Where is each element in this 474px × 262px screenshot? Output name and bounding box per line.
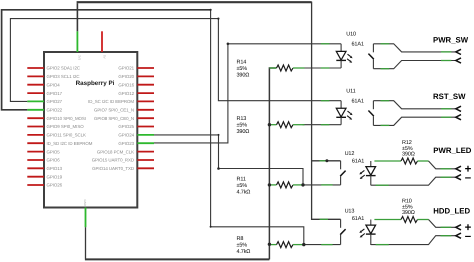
svg-text:HDD_LED: HDD_LED bbox=[433, 207, 470, 216]
svg-text:R13: R13 bbox=[237, 116, 247, 122]
svg-text:GPIO4: GPIO4 bbox=[47, 82, 61, 87]
Pi pin GPIO20 bbox=[118, 74, 154, 79]
junction GPIO23 corner bbox=[227, 43, 230, 46]
Pi pin ID_SD I2C ID EEPROM bbox=[27, 141, 92, 146]
Pi pin GPIO11 SPI0_SCLK bbox=[27, 133, 86, 138]
wire 3V3 bus to U12/U13 switches bbox=[77, 2, 341, 220]
svg-text:ID_SD I2C ID EEPROM: ID_SD I2C ID EEPROM bbox=[47, 141, 93, 146]
Pi pin GPIO2 SDA1 I2C bbox=[27, 66, 80, 71]
svg-text:±5%: ±5% bbox=[237, 123, 248, 129]
svg-text:Raspberry Pi: Raspberry Pi bbox=[76, 80, 115, 87]
svg-text:±5%: ±5% bbox=[237, 243, 248, 249]
Pi pin GPIO13 bbox=[27, 166, 62, 171]
Pi pin GPIO4 bbox=[27, 82, 60, 87]
junction U12 switch feed bbox=[325, 159, 328, 162]
Pi pin GPIO25 bbox=[118, 124, 154, 129]
svg-text:U11: U11 bbox=[346, 88, 355, 94]
svg-text:GPIO18 PCM_CLK: GPIO18 PCM_CLK bbox=[97, 149, 134, 154]
Pi pin GPIO22 bbox=[27, 108, 62, 113]
resistor R12 390Ω bbox=[374, 140, 428, 164]
svg-text:GPIO14 UART0_TXD: GPIO14 UART0_TXD bbox=[92, 166, 134, 171]
svg-text:GPIO8 SPI0_CE0_N: GPIO8 SPI0_CE0_N bbox=[94, 116, 134, 121]
svg-text:GPIO21: GPIO21 bbox=[118, 66, 134, 71]
junction R8 right bbox=[302, 243, 305, 246]
bend GPIO22 wire bbox=[210, 9, 212, 11]
wire R14 to U10 LED cathode bbox=[303, 67, 342, 69]
Raspberry Pi module body bbox=[44, 52, 137, 208]
resistor R11 4.7kΩ bbox=[237, 176, 305, 195]
svg-text:R11: R11 bbox=[237, 176, 246, 182]
Pi pin GPIO12 bbox=[118, 91, 154, 96]
Pi pin GPIO18 PCM_CLK bbox=[97, 149, 154, 154]
Pi pin GPIO10 SPI0_MOSI bbox=[27, 116, 86, 121]
wire GND bus to resistor column bbox=[85, 68, 277, 259]
svg-text:GPIO16: GPIO16 bbox=[118, 82, 134, 87]
junction R11 right bbox=[301, 183, 304, 186]
optocoupler U10 61A1 (LED side) bbox=[321, 32, 364, 69]
svg-text:GPIO17: GPIO17 bbox=[47, 91, 63, 96]
junction R8 left bbox=[268, 243, 271, 246]
svg-text:GPIO7 SPI0_CE1_N: GPIO7 SPI0_CE1_N bbox=[94, 108, 134, 113]
Pi pin GPIO14 UART0_TXD bbox=[92, 166, 154, 171]
bend GPIO24 corner bbox=[218, 134, 220, 136]
svg-text:GPIO9 SPI0_MISO: GPIO9 SPI0_MISO bbox=[47, 124, 85, 129]
optocoupler U12 61A1 (switch side) bbox=[320, 151, 365, 185]
optocoupler U10 61A1 (switch side) bbox=[368, 44, 373, 69]
svg-text:PWR_SW: PWR_SW bbox=[433, 35, 469, 44]
svg-text:GPIO13: GPIO13 bbox=[47, 166, 63, 171]
svg-text:R14: R14 bbox=[237, 60, 247, 66]
svg-text:61A1: 61A1 bbox=[352, 42, 364, 48]
svg-text:±5%: ±5% bbox=[237, 183, 248, 189]
junction R13 left bbox=[268, 123, 271, 126]
svg-text:390Ω: 390Ω bbox=[237, 73, 250, 79]
svg-text:GPIO23: GPIO23 bbox=[118, 141, 134, 146]
svg-text:GPIO15 UART0_RXD: GPIO15 UART0_RXD bbox=[92, 158, 134, 163]
Pi pin ID_SC I2C ID EEPROM bbox=[88, 99, 154, 104]
wire R8 to U13 switch bbox=[303, 244, 341, 246]
svg-text:ID_SC I2C ID EEPROM: ID_SC I2C ID EEPROM bbox=[88, 99, 134, 104]
Pi pin GPIO3 SCL1 I2C bbox=[27, 74, 79, 79]
Pi pin GPIO26 bbox=[27, 183, 62, 188]
svg-text:–: – bbox=[465, 172, 472, 184]
Pi pin GPIO19 bbox=[27, 174, 62, 179]
optocoupler U11 61A1 (LED side) bbox=[321, 88, 364, 124]
resistor R14 390Ω bbox=[237, 60, 305, 79]
connector HDD_LED bbox=[371, 207, 472, 245]
Pi pin GPIO7 SPI0_CE1_N bbox=[94, 108, 154, 113]
Pi pin GPIO6 bbox=[27, 158, 60, 163]
Pi pin GPIO27 bbox=[27, 99, 62, 104]
junction R11 left bbox=[268, 183, 271, 186]
svg-text:GPIO20: GPIO20 bbox=[118, 74, 134, 79]
optocoupler U12 61A1 (LED side) bbox=[359, 161, 375, 185]
Pi pin GPIO24 bbox=[118, 133, 154, 138]
optocoupler U13 61A1 (LED side) bbox=[359, 220, 375, 246]
Pi pin 3V3 (top) bbox=[77, 31, 81, 60]
svg-text:U12: U12 bbox=[345, 151, 355, 157]
svg-text:61A1: 61A1 bbox=[352, 216, 364, 222]
Pi pin GPIO16 bbox=[118, 82, 154, 87]
svg-text:GPIO19: GPIO19 bbox=[47, 174, 63, 179]
wire GPIO27 loop to U11 LED anode bbox=[10, 19, 341, 102]
svg-text:GPIO5: GPIO5 bbox=[47, 149, 61, 154]
wire R11 to U12 switch bbox=[303, 184, 341, 186]
wire GPIO24 to R11 row bbox=[154, 135, 303, 185]
connector RST_SW bbox=[373, 92, 466, 125]
optocoupler U11 61A1 (switch side) bbox=[368, 101, 373, 126]
svg-text:GPIO3 SCL1 I2C: GPIO3 SCL1 I2C bbox=[47, 74, 80, 79]
svg-text:GPIO25: GPIO25 bbox=[118, 124, 134, 129]
svg-text:GPIO22: GPIO22 bbox=[47, 108, 63, 113]
svg-text:PWR_LED: PWR_LED bbox=[433, 146, 471, 155]
svg-text:390Ω: 390Ω bbox=[402, 210, 415, 216]
bend GPIO27 wire bbox=[217, 18, 219, 20]
svg-text:4.7kΩ: 4.7kΩ bbox=[237, 189, 251, 195]
Pi pin GPIO8 SPI0_CE0_N bbox=[94, 116, 154, 121]
svg-text:GPIO6: GPIO6 bbox=[47, 158, 61, 163]
svg-text:390Ω: 390Ω bbox=[237, 129, 250, 135]
svg-text:GPIO26: GPIO26 bbox=[47, 183, 63, 188]
Pi pin GPIO17 bbox=[27, 91, 62, 96]
Pi pin GPIO15 UART0_RXD bbox=[92, 158, 154, 163]
svg-text:GPIO11 SPI0_SCLK: GPIO11 SPI0_SCLK bbox=[47, 133, 87, 138]
svg-text:61A1: 61A1 bbox=[352, 99, 364, 105]
optocoupler U13 61A1 (switch side) bbox=[320, 209, 365, 245]
svg-text:GPIO27: GPIO27 bbox=[47, 99, 63, 104]
bend GPIO22 corner bbox=[210, 226, 212, 228]
resistor R8 4.7kΩ bbox=[237, 236, 305, 255]
Pi pin 5V (top) bbox=[102, 31, 106, 58]
Pi pin GPIO5 bbox=[27, 149, 60, 154]
Pi pin GND (bottom) bbox=[83, 200, 87, 228]
svg-text:U10: U10 bbox=[346, 32, 356, 38]
svg-text:GND: GND bbox=[83, 200, 87, 207]
svg-text:–: – bbox=[465, 230, 472, 242]
Pi pin GPIO23 bbox=[118, 141, 154, 146]
svg-text:GPIO12: GPIO12 bbox=[118, 91, 134, 96]
connector PWR_LED bbox=[371, 146, 472, 185]
svg-text:3V3: 3V3 bbox=[78, 55, 82, 61]
svg-text:U13: U13 bbox=[345, 209, 355, 215]
svg-text:RST_SW: RST_SW bbox=[433, 92, 466, 101]
connector PWR_SW bbox=[373, 35, 468, 68]
wire GPIO23 up to U10 LED anode bbox=[154, 44, 341, 143]
resistor R10 390Ω bbox=[374, 199, 428, 223]
svg-text:GPIO2 SDA1 I2C: GPIO2 SDA1 I2C bbox=[47, 66, 80, 71]
svg-text:61A1: 61A1 bbox=[352, 158, 364, 164]
svg-text:GPIO24: GPIO24 bbox=[118, 133, 134, 138]
svg-text:R8: R8 bbox=[237, 236, 244, 242]
wire GPIO22 loop down to R8 row bbox=[2, 9, 304, 244]
svg-text:5V: 5V bbox=[102, 55, 106, 59]
wire R13 to U11 LED cathode bbox=[303, 124, 342, 126]
Pi pin GPIO9 SPI0_MISO bbox=[27, 124, 84, 129]
junction GPIO24 bend bbox=[217, 167, 220, 170]
svg-text:4.7kΩ: 4.7kΩ bbox=[237, 249, 251, 255]
svg-text:GPIO10 SPI0_MOSI: GPIO10 SPI0_MOSI bbox=[47, 116, 86, 121]
resistor R13 390Ω bbox=[237, 116, 305, 135]
Pi pin GPIO21 bbox=[118, 66, 154, 71]
svg-text:390Ω: 390Ω bbox=[402, 152, 415, 158]
svg-text:±5%: ±5% bbox=[237, 66, 248, 72]
